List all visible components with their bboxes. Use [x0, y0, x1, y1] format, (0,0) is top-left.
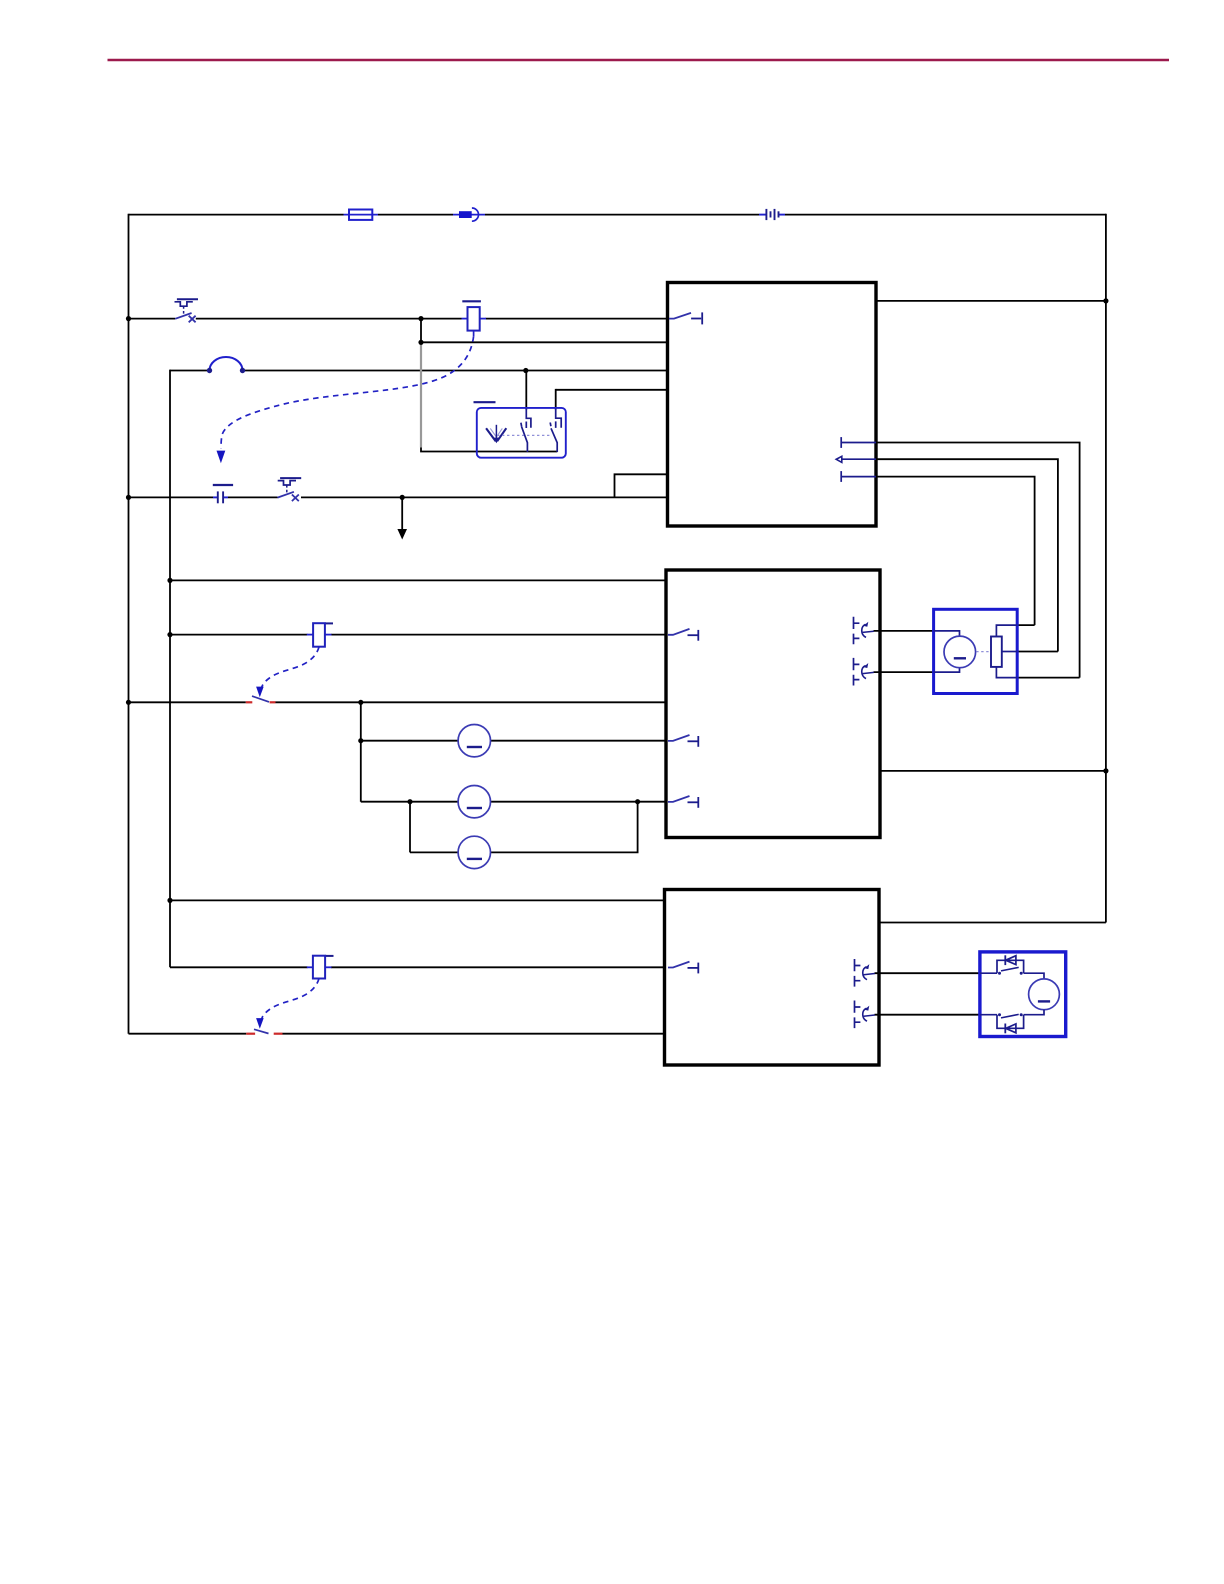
lamp L3: [458, 836, 490, 868]
wire relay R3 to box3: [331, 966, 665, 968]
wire box1 pin C loop: [876, 477, 1035, 625]
wire ignition row y=318 left: [129, 318, 176, 320]
node bus1/y318: [126, 316, 131, 321]
node right bus/y770: [1103, 768, 1108, 773]
wire second bus x=170: [169, 370, 171, 968]
node x637/y801: [635, 799, 640, 804]
wire junction drop x=421: [420, 319, 422, 344]
M2 motor: [1029, 979, 1060, 1010]
relay coil K2: [307, 623, 333, 647]
wire lamp2 to box2: [491, 801, 666, 803]
wire y=389.8 to box1: [556, 389, 668, 391]
switch SW5 (red contacts): [246, 1029, 282, 1033]
mech link K2 to switch4: [261, 647, 319, 690]
motor assembly M1 (heater blower): [934, 609, 1018, 693]
wire motor1 bottom link: [1017, 677, 1079, 679]
wire y=1033.7 left of switch5: [129, 1033, 247, 1035]
wire relay R1 to box1: [486, 318, 668, 320]
node x360/y702: [358, 700, 363, 705]
U1 internal switch: [669, 312, 702, 324]
mech link K1 to capacitor: [221, 336, 474, 448]
wire y=580 to box2: [170, 579, 666, 581]
U1 pin B (triangle): [836, 456, 876, 462]
wire y=801.7 to lamp2: [361, 801, 459, 803]
mech link K3 arrowhead: [256, 1018, 264, 1029]
wire box3 right exit y=922.5: [879, 922, 1106, 924]
motor assembly M2 (door lock): [980, 952, 1066, 1037]
wiper icon: [486, 425, 506, 444]
wire lamp1 to box2: [491, 740, 666, 742]
wire drop to wiper contact 2: [555, 389, 557, 410]
wire ground arrow stem: [401, 497, 403, 532]
wire y=370 left stub: [170, 370, 210, 372]
node right bus/y300: [1103, 298, 1108, 303]
wire motor1 top link: [1017, 624, 1034, 626]
wire box3 pin2 to motor2: [875, 1014, 981, 1016]
node x410/y801: [407, 799, 412, 804]
node ground arrow junction: [400, 495, 405, 500]
capacitor C1: [213, 485, 233, 503]
wire fuse to connector: [378, 214, 453, 216]
fuse F1: [344, 210, 379, 220]
wire y=900.4 to box3: [170, 899, 665, 901]
wire box2 pin2 to motor1: [874, 671, 934, 673]
U2 connector pin pair 1: [854, 617, 874, 645]
wire y=740.7 to lamp1: [361, 740, 459, 742]
wire top feed y=214: [129, 214, 344, 216]
mech link K1 arrowhead: [217, 451, 226, 464]
wire drop x=360.8: [360, 702, 362, 801]
control unit U3: [665, 890, 880, 1066]
wire y=634 left of relay R2: [170, 634, 308, 636]
wire drop x=410: [409, 802, 411, 853]
node bus1/y702: [126, 700, 131, 705]
U2 internal switch y=634: [668, 629, 698, 641]
node bus2/y634: [167, 632, 172, 637]
U3 internal switch y=967: [668, 962, 698, 974]
wire y=342 to box1: [421, 341, 668, 343]
wire switch5 to box3: [283, 1033, 665, 1035]
wiper contact 1: [521, 409, 531, 453]
ground arrow head: [397, 529, 407, 540]
node bus2/y580: [167, 578, 172, 583]
wire shielded drop (gray) x=421: [420, 343, 422, 447]
switch SW4 (red contacts): [246, 696, 276, 702]
wire box1 pin B loop: [876, 459, 1058, 651]
M2 feed 1 with contact + diode: [980, 972, 997, 974]
wire y=856.5 to lamp3: [410, 851, 458, 853]
control unit U1: [668, 283, 877, 527]
wire motor1 mid link: [1017, 651, 1058, 653]
wire drop to wiper contact 1: [525, 371, 527, 410]
switch SW1 (plunger): [175, 299, 199, 322]
relay coil K3: [307, 956, 334, 979]
wire switch4 to box2: [276, 701, 667, 703]
wire switch1 to junction: [196, 318, 462, 320]
wire capacitor row left y=497: [129, 496, 214, 498]
wire connector to battery: [485, 214, 759, 216]
wire left bus: [128, 214, 130, 1034]
page header rule: [108, 59, 1170, 62]
node bus2/y900: [167, 898, 172, 903]
node bus1/y497: [126, 495, 131, 500]
U3 connector pin pair 2: [855, 1001, 875, 1029]
connector X1: [453, 208, 485, 221]
wiper contact 2: [550, 409, 561, 453]
node x360/y740: [358, 738, 363, 743]
wire box2 pin1 to motor1: [874, 630, 934, 632]
U3 connector pin pair 1: [855, 959, 875, 987]
wire capacitor to switch2: [228, 496, 278, 498]
node x421/y318: [418, 316, 423, 321]
wire box1 pin A loop: [876, 443, 1080, 678]
switch SW2 (plunger): [278, 478, 302, 501]
battery / inline cells G1: [759, 209, 785, 220]
wire box1 top right to bus: [876, 300, 1106, 302]
wiper switch module: [474, 402, 566, 457]
mech link K3 to switch5: [261, 979, 319, 1022]
U2 internal switch y=740: [668, 735, 698, 747]
wire relay R2 to box2: [331, 634, 666, 636]
control unit U2: [666, 570, 880, 838]
node x525/y370: [523, 368, 528, 373]
M2 feed 2 with contact + diode: [980, 1014, 997, 1016]
U1 pin A: [841, 437, 876, 448]
wire y=702 left of switch4: [129, 701, 246, 703]
wire box3 pin1 to motor2: [875, 972, 981, 974]
wire wiper common bottom: [421, 447, 557, 452]
node x421/y342: [418, 340, 423, 345]
wire y=370 arc to box1: [243, 370, 668, 372]
U1 pin C: [841, 471, 876, 482]
wire hop arc: [207, 357, 245, 373]
U2 connector pin pair 2: [854, 658, 874, 686]
wire lamp3 riser: [491, 802, 638, 853]
wire switch2 to box1: [301, 496, 668, 498]
wire battery to right bus: [785, 214, 1106, 216]
lamp L1: [458, 725, 490, 757]
wire right bus: [1105, 214, 1107, 923]
wire box2 right exit y=770.9: [880, 770, 1106, 772]
wire y=967.3 left of relay R3: [170, 966, 308, 968]
wire box1 tab notch: [615, 474, 668, 497]
mech link K2 arrowhead: [256, 687, 264, 698]
lamp L2: [458, 786, 490, 818]
relay coil K1: [462, 301, 487, 336]
wiper mech dotted link: [497, 434, 552, 436]
U2 internal switch y=801: [668, 796, 698, 808]
